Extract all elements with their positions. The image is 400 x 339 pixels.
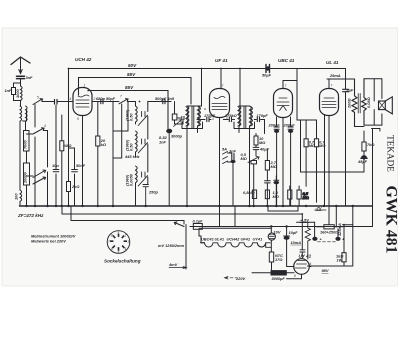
svg-text:220V: 220V: [235, 276, 245, 281]
svg-text:1000: 1000: [15, 89, 20, 98]
svg-text:0,08Ω: 0,08Ω: [366, 97, 371, 108]
svg-text:1MΩ: 1MΩ: [63, 143, 71, 148]
svg-text:200µF: 200µF: [268, 123, 281, 128]
svg-text:5: 5: [118, 250, 120, 254]
svg-text:1nF: 1nF: [5, 88, 13, 93]
svg-text:MΩ: MΩ: [303, 195, 309, 200]
svg-text:10mA: 10mA: [291, 240, 302, 245]
svg-text:UCH 42: UCH 42: [75, 57, 92, 62]
svg-text:2: 2: [93, 97, 96, 101]
svg-text:(1960): (1960): [125, 139, 130, 151]
svg-text:UBC 41: UBC 41: [278, 58, 295, 63]
svg-text:6: 6: [111, 247, 113, 251]
svg-text:MΩ: MΩ: [259, 140, 265, 145]
svg-text:MΩ: MΩ: [309, 143, 315, 148]
svg-text:UBC41: UBC41: [201, 237, 214, 242]
svg-text:85V: 85V: [125, 85, 134, 90]
svg-text:7000: 7000: [23, 140, 28, 149]
svg-text:40µF: 40µF: [259, 147, 270, 152]
svg-text:-7V: -7V: [316, 206, 322, 211]
svg-text:4: 4: [310, 262, 312, 266]
svg-text:170pF: 170pF: [257, 113, 269, 118]
svg-text:7: 7: [222, 84, 224, 88]
svg-text:17Ω: 17Ω: [275, 257, 282, 262]
svg-text:5A: 5A: [222, 147, 227, 152]
svg-text:50µF: 50µF: [262, 73, 272, 78]
svg-text:200µF: 200µF: [283, 123, 296, 128]
svg-text:MΩ: MΩ: [273, 194, 279, 199]
svg-text:1: 1: [118, 230, 120, 234]
svg-text:GWK 481: GWK 481: [383, 185, 400, 253]
svg-text:-4,5V: -4,5V: [300, 218, 310, 223]
svg-text:UCH42: UCH42: [227, 237, 241, 242]
svg-text:5: 5: [77, 117, 79, 121]
svg-text:7: 7: [108, 240, 110, 244]
svg-text:10n: 10n: [52, 163, 59, 168]
svg-text:MΩ: MΩ: [271, 164, 277, 169]
svg-text:5: 5: [37, 96, 39, 100]
svg-text:UF41: UF41: [241, 237, 251, 242]
svg-text:UL 41: UL 41: [326, 60, 339, 65]
svg-text:3000p: 3000p: [171, 134, 183, 139]
svg-text:125mA: 125mA: [337, 223, 342, 236]
svg-text:45µF: 45µF: [357, 159, 368, 164]
svg-text:5: 5: [226, 117, 228, 121]
svg-text:0,8MΩ: 0,8MΩ: [243, 190, 255, 195]
svg-text:8µF: 8µF: [347, 88, 354, 93]
svg-text:10V: 10V: [274, 230, 281, 235]
svg-text:3000µF: 3000µF: [272, 276, 286, 281]
svg-text:(1960): (1960): [125, 109, 130, 121]
svg-text:mV 1250/2mm: mV 1250/2mm: [158, 243, 184, 248]
svg-text:TEKADE: TEKADE: [386, 135, 396, 172]
svg-text:3: 3: [212, 117, 214, 121]
svg-text:7: 7: [120, 95, 122, 99]
svg-text:4: 4: [125, 247, 127, 251]
svg-text:3nF: 3nF: [26, 75, 34, 80]
svg-text:MΩ: MΩ: [319, 143, 325, 148]
svg-text:(1960): (1960): [125, 174, 130, 186]
svg-text:7: 7: [285, 84, 287, 88]
svg-text:160+250Ω: 160+250Ω: [320, 230, 338, 235]
svg-text:3nF: 3nF: [229, 149, 237, 154]
svg-text:1: 1: [84, 84, 86, 88]
svg-text:MΩ: MΩ: [241, 156, 247, 161]
svg-text:4: 4: [44, 124, 46, 128]
svg-text:2kΩ: 2kΩ: [71, 184, 79, 189]
svg-text:UY41: UY41: [253, 237, 263, 242]
svg-text:ZF=472 kHz: ZF=472 kHz: [17, 213, 44, 218]
svg-text:10µF: 10µF: [289, 230, 299, 235]
svg-text:680p 50pF: 680p 50pF: [96, 96, 116, 101]
svg-text:100: 100: [14, 193, 19, 200]
svg-text:a: a: [204, 107, 206, 111]
svg-text:Meßwerte bei 220V: Meßwerte bei 220V: [31, 239, 66, 244]
svg-text:85V: 85V: [127, 72, 136, 77]
svg-text:3: 3: [128, 240, 130, 244]
svg-text:8: 8: [111, 234, 113, 238]
svg-text:20000: 20000: [23, 171, 28, 184]
svg-text:250p: 250p: [148, 190, 158, 195]
svg-text:445 kHz: 445 kHz: [124, 154, 140, 159]
svg-text:29mA: 29mA: [329, 73, 341, 78]
svg-text:170pF: 170pF: [204, 113, 216, 118]
svg-text:50nF: 50nF: [76, 163, 86, 168]
svg-text:UY 41: UY 41: [299, 254, 312, 259]
svg-text:UF 41: UF 41: [215, 58, 228, 63]
svg-text:1nF: 1nF: [159, 140, 167, 145]
svg-text:0,1µF: 0,1µF: [193, 219, 204, 224]
svg-text:2: 2: [124, 234, 127, 238]
svg-text:UL41: UL41: [215, 237, 225, 242]
svg-text:1W: 1W: [337, 258, 343, 263]
svg-text:200Ω: 200Ω: [347, 98, 352, 109]
svg-text:4mV: 4mV: [168, 262, 178, 267]
svg-text:7: 7: [331, 84, 333, 88]
svg-text:8: 8: [294, 274, 296, 278]
svg-text:4: 4: [70, 97, 72, 101]
svg-text:50V: 50V: [128, 63, 137, 68]
svg-text:500pF 4n5: 500pF 4n5: [155, 96, 175, 101]
svg-text:7kΩ: 7kΩ: [367, 142, 374, 147]
svg-text:98V: 98V: [322, 268, 329, 273]
svg-text:Sockelschaltung: Sockelschaltung: [104, 259, 141, 264]
svg-text:kΩ: kΩ: [101, 142, 106, 147]
